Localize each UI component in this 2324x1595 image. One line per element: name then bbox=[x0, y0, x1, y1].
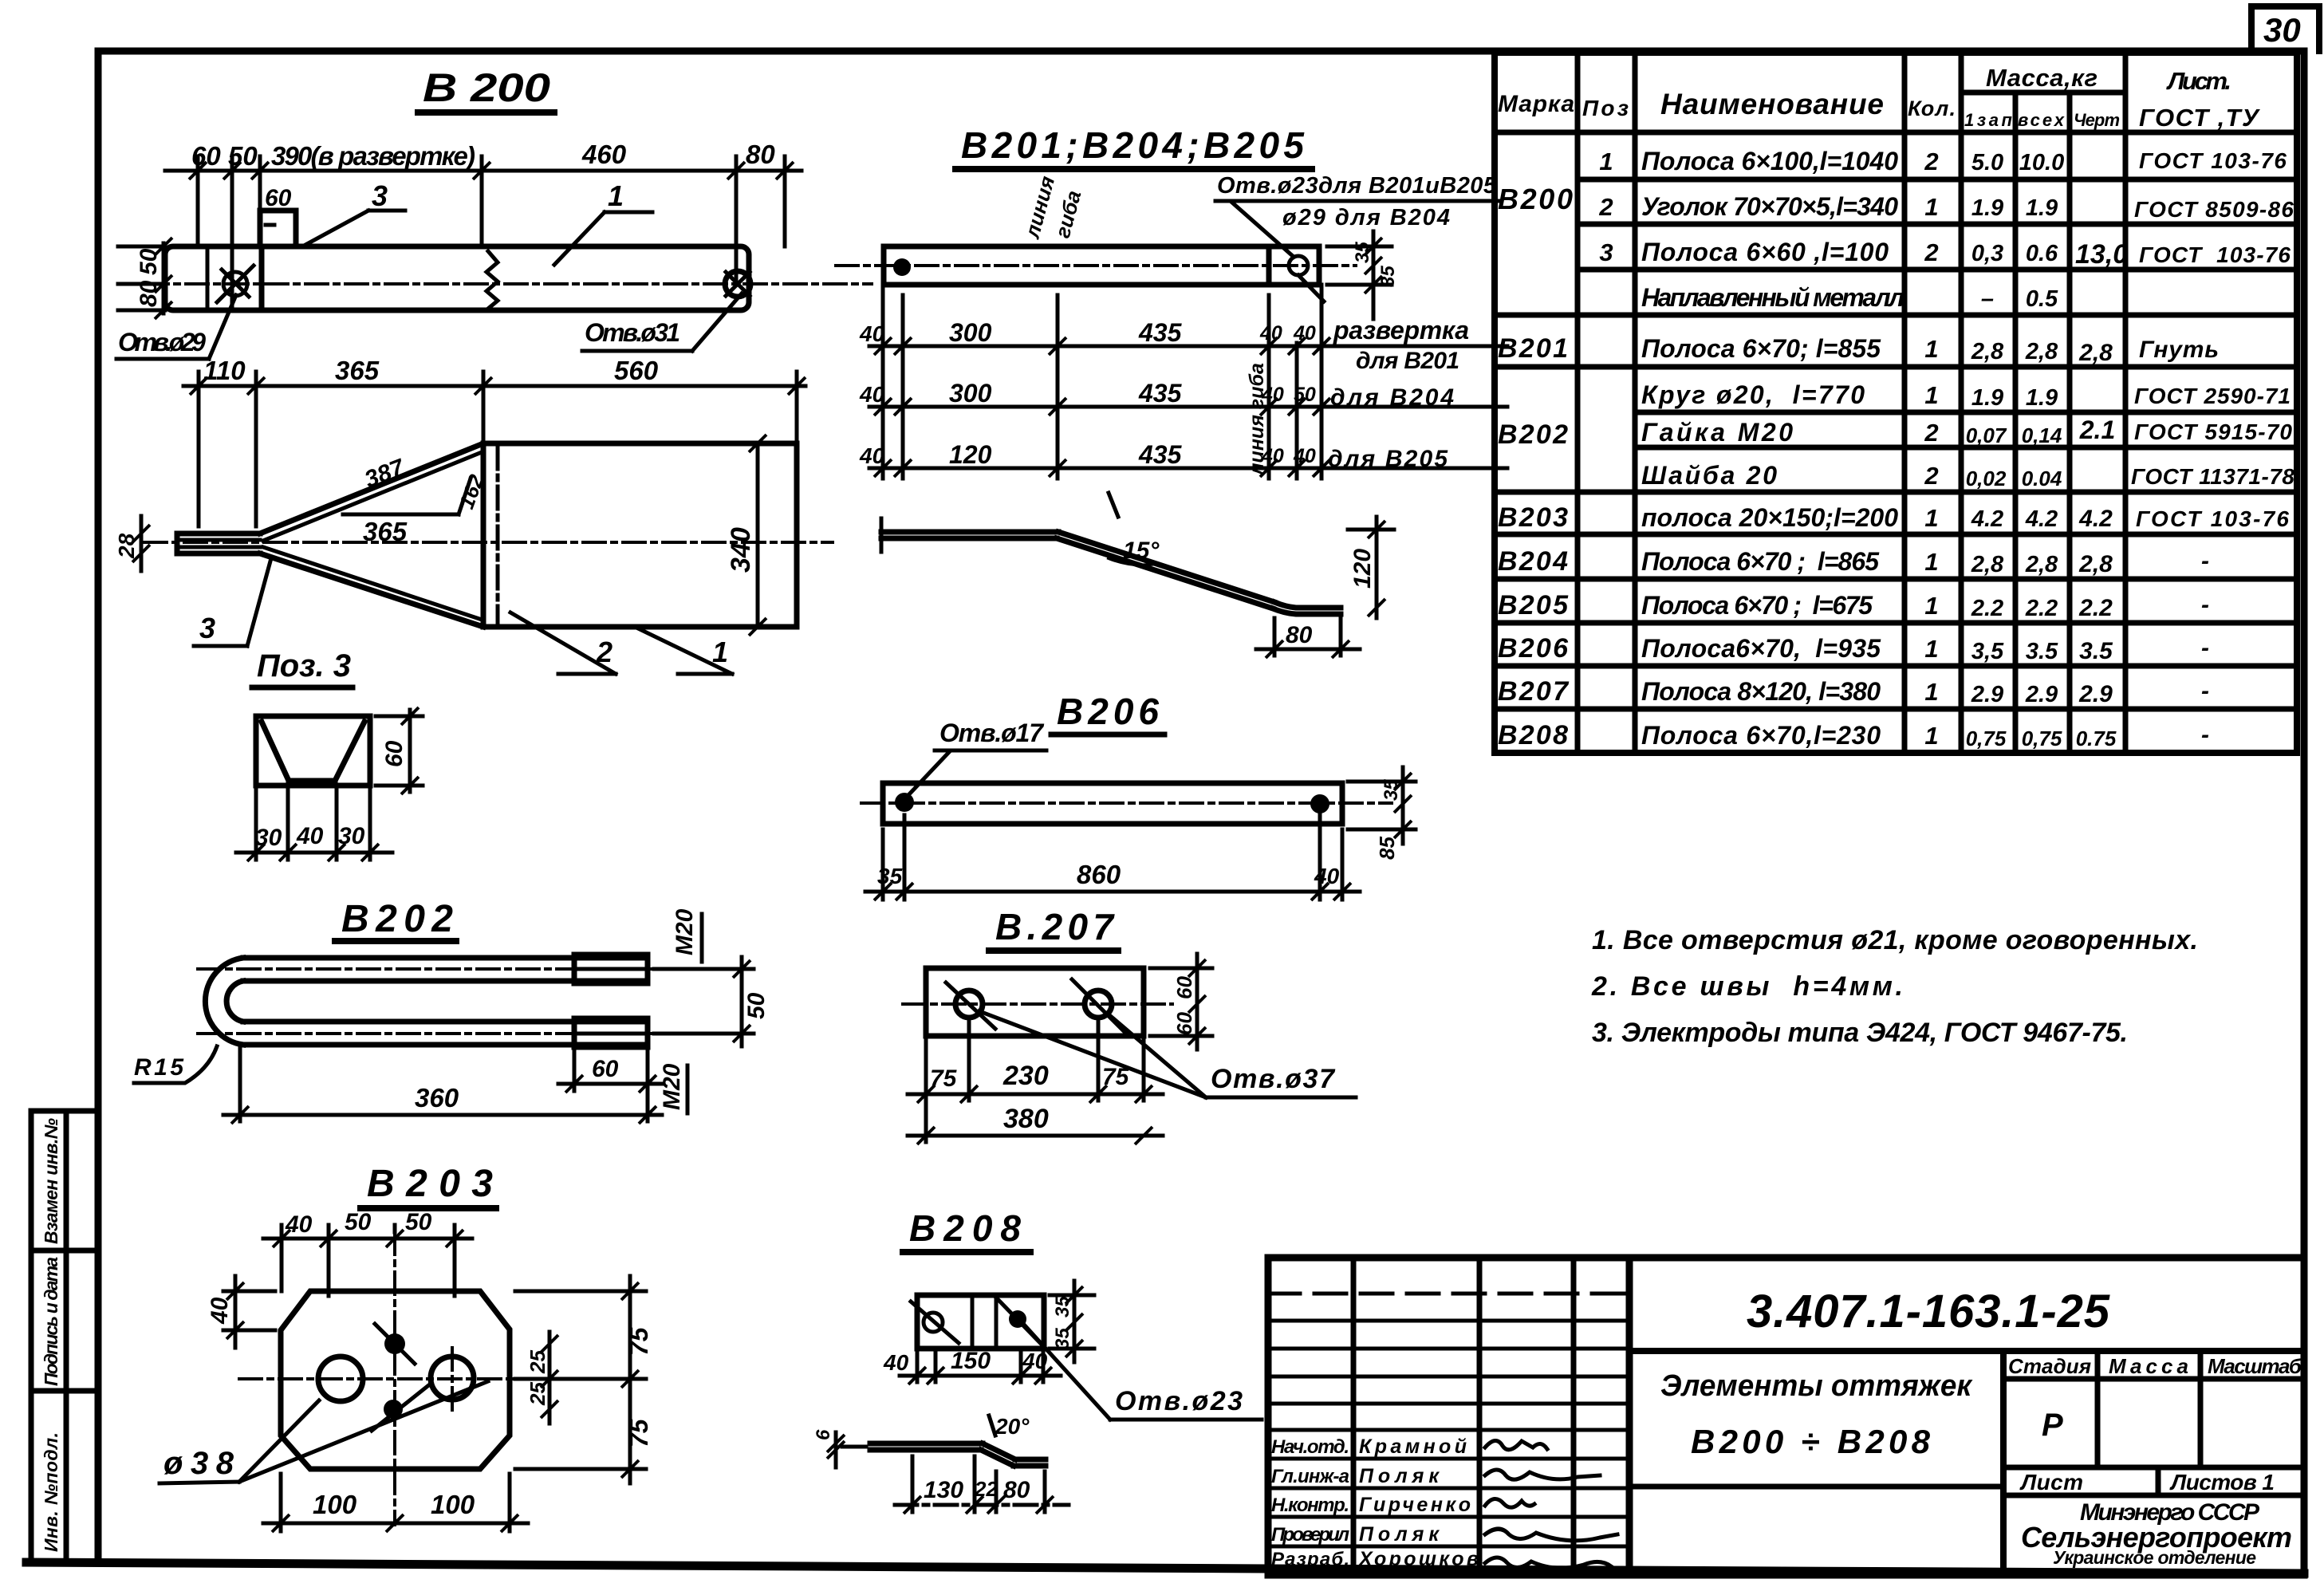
dim 120 right bbox=[1348, 517, 1394, 618]
svg-text:В203: В203 bbox=[1498, 502, 1568, 533]
funnel outline bbox=[144, 443, 833, 627]
label Отв.ø37 bbox=[979, 1011, 1356, 1097]
table body rows bbox=[1498, 147, 2294, 750]
svg-text:Инв. №подл.: Инв. №подл. bbox=[41, 1432, 61, 1552]
B207 dim 380 bbox=[908, 1104, 1163, 1144]
label Отв.ø31 bbox=[582, 293, 742, 351]
svg-text:В207: В207 bbox=[1498, 676, 1570, 707]
svg-text:Гайка М20: Гайка М20 bbox=[1641, 418, 1793, 447]
svg-text:4.2: 4.2 bbox=[1971, 506, 2003, 532]
svg-text:Полоса 6×70,l=230: Полоса 6×70,l=230 bbox=[1641, 721, 1881, 750]
svg-text:Полоса 6×70 ; l=675: Полоса 6×70 ; l=675 bbox=[1641, 591, 1873, 620]
svg-text:40: 40 bbox=[296, 823, 324, 849]
page border right bbox=[2301, 51, 2308, 1573]
svg-text:Проверил: Проверил bbox=[1271, 1524, 1349, 1546]
svg-text:ГОСТ 103-76: ГОСТ 103-76 bbox=[2139, 242, 2291, 267]
dim 360 bbox=[223, 1046, 662, 1124]
svg-text:40: 40 bbox=[1314, 864, 1340, 888]
svg-text:60: 60 bbox=[592, 1056, 619, 1082]
svg-text:40: 40 bbox=[1293, 445, 1316, 467]
svg-text:1зап: 1зап bbox=[1964, 110, 2013, 130]
B200 development view bbox=[183, 356, 806, 526]
centre line bbox=[146, 282, 872, 286]
svg-text:3.5: 3.5 bbox=[2026, 639, 2058, 664]
svg-text:340: 340 bbox=[726, 527, 756, 573]
svg-text:ГОСТ 11371-78: ГОСТ 11371-78 bbox=[2131, 464, 2294, 489]
svg-text:130: 130 bbox=[924, 1477, 963, 1503]
svg-text:60: 60 bbox=[1172, 976, 1196, 999]
svg-text:2,8: 2,8 bbox=[1971, 339, 2004, 364]
svg-text:10.0: 10.0 bbox=[2019, 150, 2064, 175]
B208 side dim 6 bbox=[813, 1429, 866, 1467]
B208 plate bbox=[911, 1295, 1046, 1349]
B206 strip bbox=[861, 783, 1392, 824]
svg-text:Взамен инв.№: Взамен инв.№ bbox=[41, 1118, 61, 1244]
left margin stamp column bbox=[31, 1111, 98, 1562]
svg-text:110: 110 bbox=[203, 356, 246, 385]
document number box bbox=[1629, 1258, 2304, 1575]
B200 strip top view bbox=[146, 185, 872, 310]
page border left bbox=[95, 51, 102, 1563]
svg-text:Р: Р bbox=[2042, 1408, 2063, 1443]
dim 28 left bbox=[114, 516, 150, 571]
svg-text:1: 1 bbox=[1924, 678, 1938, 706]
svg-text:0,14: 0,14 bbox=[2022, 423, 2062, 447]
svg-text:2,8: 2,8 bbox=[2078, 551, 2113, 577]
svg-text:Элементы оттяжек: Элементы оттяжек bbox=[1660, 1369, 1973, 1403]
svg-text:Отв.ø31: Отв.ø31 bbox=[585, 318, 680, 347]
svg-text:35: 35 bbox=[1381, 779, 1402, 801]
hole d38 right bbox=[431, 1357, 474, 1400]
B203 dims 100 100 bottom bbox=[263, 1474, 528, 1532]
svg-text:435: 435 bbox=[1138, 318, 1183, 347]
B208 side view bent strip 20deg bbox=[870, 1414, 1046, 1466]
svg-text:40: 40 bbox=[859, 382, 885, 407]
small holes d21 bbox=[384, 1333, 405, 1354]
hole d31 right bbox=[725, 271, 750, 297]
svg-text:380: 380 bbox=[1003, 1104, 1049, 1134]
leader 1 bbox=[554, 179, 652, 265]
svg-text:75: 75 bbox=[624, 1326, 653, 1356]
svg-text:-: - bbox=[2201, 722, 2209, 748]
svg-text:Гнуть: Гнуть bbox=[2139, 337, 2219, 363]
svg-text:Черт: Черт bbox=[2074, 110, 2120, 130]
svg-text:30: 30 bbox=[338, 823, 365, 849]
svg-text:80: 80 bbox=[136, 280, 162, 307]
svg-text:Полоса 8×120, l=380: Полоса 8×120, l=380 bbox=[1641, 677, 1881, 706]
signatures squiggles bbox=[1485, 1440, 1617, 1568]
svg-text:50: 50 bbox=[228, 141, 258, 171]
row lines bbox=[1578, 177, 2297, 183]
svg-text:2: 2 bbox=[1924, 238, 1938, 266]
svg-text:0,75: 0,75 bbox=[1966, 727, 2007, 750]
svg-text:Разраб.: Разраб. bbox=[1271, 1549, 1349, 1570]
svg-text:40: 40 bbox=[859, 321, 885, 346]
svg-text:М20: М20 bbox=[672, 908, 698, 955]
svg-text:ГОСТ 8509-86: ГОСТ 8509-86 bbox=[2134, 197, 2294, 222]
svg-text:В200: В200 bbox=[1498, 183, 1573, 215]
svg-text:80: 80 bbox=[746, 140, 775, 169]
label ø38 bbox=[160, 1381, 488, 1483]
svg-text:Уголок 70×70×5,l=340: Уголок 70×70×5,l=340 bbox=[1641, 192, 1898, 221]
svg-text:2,8: 2,8 bbox=[2078, 340, 2113, 366]
hole d29 left bbox=[223, 272, 247, 296]
svg-text:13,0: 13,0 bbox=[2075, 239, 2128, 270]
svg-text:1.9: 1.9 bbox=[2026, 385, 2058, 411]
svg-text:Отв.ø23: Отв.ø23 bbox=[1115, 1386, 1243, 1416]
empty revision rows bbox=[1268, 1292, 1629, 1296]
svg-text:-: - bbox=[2201, 592, 2209, 618]
notes bbox=[1591, 925, 2198, 1048]
svg-text:50: 50 bbox=[136, 248, 162, 275]
svg-text:ГОСТ 2590-71: ГОСТ 2590-71 bbox=[2134, 384, 2291, 408]
dim 60 bbox=[558, 1051, 662, 1121]
svg-text:30: 30 bbox=[2263, 11, 2301, 49]
svg-text:25: 25 bbox=[526, 1382, 549, 1406]
svg-text:2: 2 bbox=[1924, 148, 1938, 175]
svg-text:Кол.: Кол. bbox=[1908, 96, 1956, 120]
svg-text:40: 40 bbox=[1259, 322, 1282, 345]
page border bottom bbox=[26, 1562, 2304, 1573]
svg-text:40: 40 bbox=[1293, 322, 1316, 345]
svg-text:360: 360 bbox=[415, 1083, 459, 1113]
leader 3 bbox=[305, 179, 405, 245]
svg-text:1: 1 bbox=[1924, 381, 1938, 409]
svg-text:0,75: 0,75 bbox=[2022, 727, 2062, 750]
svg-text:40: 40 bbox=[883, 1350, 909, 1375]
B207 dims 75 230 75 bbox=[908, 1019, 1163, 1142]
hole d38 left bbox=[318, 1357, 363, 1401]
svg-text:Полоса 6×60 ,l=100: Полоса 6×60 ,l=100 bbox=[1641, 238, 1889, 266]
dim 80 bottom bbox=[1256, 618, 1360, 658]
svg-text:В202: В202 bbox=[1498, 419, 1568, 450]
svg-text:365: 365 bbox=[335, 356, 380, 385]
row line 1 bbox=[869, 345, 1507, 349]
svg-text:Украинское отделение: Украинское отделение bbox=[2053, 1547, 2256, 1568]
svg-text:3.5: 3.5 bbox=[2079, 638, 2113, 664]
svg-text:2.2: 2.2 bbox=[2078, 595, 2113, 621]
svg-text:1. Все отверстия ø21, кроме ог: 1. Все отверстия ø21, кроме оговоренных. bbox=[1592, 925, 2198, 955]
svg-text:460: 460 bbox=[581, 140, 627, 169]
leader 1 (funnel) bbox=[638, 628, 732, 674]
svg-text:Полоса6×70, l=935: Полоса6×70, l=935 bbox=[1641, 634, 1881, 663]
svg-text:М20: М20 bbox=[659, 1063, 685, 1110]
svg-text:Наплавленный металл: Наплавленный металл bbox=[1641, 283, 1904, 312]
B200 top dim line 60 50 390 460 80 bbox=[165, 140, 802, 284]
svg-text:2.9: 2.9 bbox=[2078, 681, 2113, 707]
svg-text:Отв.ø29: Отв.ø29 bbox=[118, 328, 206, 356]
svg-text:0,07: 0,07 bbox=[1966, 423, 2007, 447]
svg-text:для В205: для В205 bbox=[1328, 446, 1448, 472]
svg-text:50: 50 bbox=[345, 1209, 372, 1235]
svg-text:Полоса 6×70; l=855: Полоса 6×70; l=855 bbox=[1641, 334, 1881, 363]
dims 35 35 right of strip bbox=[1327, 231, 1399, 319]
dim 340 right bbox=[726, 435, 766, 636]
organisation bbox=[2021, 1499, 2292, 1568]
svg-text:435: 435 bbox=[1138, 379, 1183, 408]
svg-text:3: 3 bbox=[372, 179, 388, 212]
svg-text:ГОСТ 103-76: ГОСТ 103-76 bbox=[2139, 148, 2287, 173]
table header text bbox=[1498, 64, 2260, 132]
svg-text:25: 25 bbox=[526, 1350, 549, 1374]
svg-text:15°: 15° bbox=[1123, 538, 1160, 564]
svg-text:ГОСТ ,ТУ: ГОСТ ,ТУ bbox=[2139, 104, 2260, 132]
svg-text:линия гиба: линия гиба bbox=[1246, 363, 1268, 476]
B206 right dims 35 85 bbox=[1348, 767, 1416, 860]
svg-text:35: 35 bbox=[1352, 242, 1373, 263]
svg-text:0.04: 0.04 bbox=[2022, 467, 2062, 490]
svg-text:75: 75 bbox=[624, 1418, 653, 1447]
svg-text:120: 120 bbox=[949, 440, 992, 469]
poz3 plate section bbox=[256, 716, 370, 786]
svg-text:для В204: для В204 bbox=[1330, 384, 1454, 411]
svg-text:2: 2 bbox=[1598, 193, 1613, 221]
svg-text:Нач.отд.: Нач.отд. bbox=[1271, 1436, 1349, 1458]
svg-text:Подпись и дата: Подпись и дата bbox=[41, 1257, 61, 1386]
B201 strip top view bbox=[836, 246, 1356, 301]
svg-text:0.5: 0.5 bbox=[2026, 286, 2058, 312]
svg-text:60: 60 bbox=[381, 740, 408, 767]
svg-text:В206: В206 bbox=[1498, 633, 1569, 664]
svg-text:100: 100 bbox=[313, 1490, 357, 1519]
svg-text:Поз. 3: Поз. 3 bbox=[257, 648, 351, 683]
svg-text:1: 1 bbox=[1924, 193, 1938, 221]
dim 50 right bbox=[654, 957, 770, 1046]
weld seam bbox=[486, 251, 498, 309]
centre lines bbox=[393, 1232, 396, 1525]
svg-text:390(в развертке): 390(в развертке) bbox=[271, 141, 475, 171]
svg-text:Лист: Лист bbox=[2019, 1470, 2083, 1495]
svg-text:Хорошков: Хорошков bbox=[1357, 1548, 1479, 1570]
svg-text:В 200: В 200 bbox=[423, 65, 550, 110]
list row bbox=[2003, 1467, 2304, 1495]
svg-text:100: 100 bbox=[431, 1490, 475, 1519]
svg-text:Масса: Масса bbox=[2109, 1354, 2188, 1378]
poz3 dims 30 40 30 bbox=[236, 786, 392, 861]
svg-text:3,5: 3,5 bbox=[1971, 639, 2004, 664]
svg-text:22: 22 bbox=[974, 1477, 998, 1501]
B208 bottom dims 40 150 40 bbox=[883, 1348, 1061, 1384]
label Отв.ø29 bbox=[116, 295, 236, 359]
B207 right dims 60 60 bbox=[1150, 954, 1212, 1050]
svg-text:4.2: 4.2 bbox=[2025, 506, 2058, 532]
svg-text:Шайба 20: Шайба 20 bbox=[1641, 461, 1777, 490]
svg-text:–: – bbox=[1981, 286, 1994, 312]
svg-text:Масса,кг: Масса,кг bbox=[1986, 64, 2098, 92]
svg-text:40: 40 bbox=[1022, 1349, 1048, 1373]
svg-text:Лист.: Лист. bbox=[2166, 67, 2231, 95]
svg-text:3.407.1-163.1-25: 3.407.1-163.1-25 bbox=[1747, 1286, 2110, 1337]
row 3 values 40 120 435 40 40 для В205 bbox=[859, 440, 1448, 472]
row 1 values 40 300 435 40 40 развертка для В201 bbox=[859, 316, 1474, 374]
svg-text:2: 2 bbox=[1924, 462, 1938, 490]
development dim rows for B201 B204 B205 bbox=[869, 285, 1507, 478]
svg-text:для В201: для В201 bbox=[1356, 348, 1459, 374]
svg-text:2: 2 bbox=[1924, 419, 1938, 447]
bent strip side view 15deg bbox=[881, 493, 1341, 614]
svg-text:развертка: развертка bbox=[1333, 316, 1469, 345]
svg-text:В200 ÷ В208: В200 ÷ В208 bbox=[1691, 1423, 1931, 1460]
left height dims 50 80 bbox=[118, 238, 172, 319]
label Отв.ø23 bbox=[1025, 1325, 1262, 1420]
svg-text:ø38: ø38 bbox=[163, 1446, 234, 1481]
svg-text:1: 1 bbox=[1599, 148, 1613, 175]
svg-text:2.2: 2.2 bbox=[1971, 596, 2003, 621]
svg-text:3: 3 bbox=[1599, 238, 1613, 266]
svg-text:Крамной: Крамной bbox=[1359, 1435, 1467, 1458]
svg-text:80: 80 bbox=[1003, 1477, 1030, 1503]
svg-text:В.207: В.207 bbox=[995, 906, 1115, 947]
poz3 dim 60 bbox=[376, 707, 423, 794]
svg-text:Н.контр.: Н.контр. bbox=[1271, 1495, 1349, 1516]
svg-text:1.9: 1.9 bbox=[1971, 385, 2003, 411]
B208 right dims 35 35 bbox=[1050, 1281, 1094, 1362]
svg-text:60: 60 bbox=[1172, 1012, 1196, 1035]
svg-text:40: 40 bbox=[859, 443, 885, 468]
svg-text:1: 1 bbox=[608, 179, 624, 212]
threaded ends bbox=[574, 955, 648, 983]
svg-text:Отв.ø37: Отв.ø37 bbox=[1211, 1064, 1336, 1094]
leader 2 (funnel) bbox=[510, 612, 616, 674]
page border top bbox=[98, 48, 2304, 55]
svg-text:60: 60 bbox=[191, 141, 221, 171]
svg-text:1.9: 1.9 bbox=[1971, 195, 2003, 221]
svg-text:1: 1 bbox=[1924, 635, 1938, 663]
row 2 values 300 435 40 50 для В204 bbox=[859, 379, 1454, 411]
svg-text:40: 40 bbox=[207, 1297, 233, 1325]
svg-text:20°: 20° bbox=[995, 1414, 1030, 1439]
svg-text:2,8: 2,8 bbox=[2025, 552, 2058, 577]
signature table frame bbox=[1268, 1258, 1629, 1575]
label Отв.ø17 bbox=[908, 719, 1046, 796]
row line 2 bbox=[869, 405, 1507, 409]
header lines bbox=[1961, 90, 2125, 96]
svg-text:R15: R15 bbox=[134, 1054, 184, 1081]
svg-text:В205: В205 bbox=[1498, 590, 1569, 620]
svg-text:полоса 20×150;l=200: полоса 20×150;l=200 bbox=[1641, 503, 1898, 532]
svg-text:1: 1 bbox=[1924, 722, 1938, 750]
B203 dims 25 25 bbox=[526, 1332, 558, 1424]
svg-text:Полоса 6×100,l=1040: Полоса 6×100,l=1040 bbox=[1641, 147, 1898, 175]
column lines bbox=[1575, 53, 1581, 753]
svg-text:50: 50 bbox=[1294, 384, 1316, 406]
svg-text:1: 1 bbox=[1924, 548, 1938, 576]
svg-text:Отв.ø23для В201иВ205: Отв.ø23для В201иВ205 bbox=[1217, 173, 1497, 199]
svg-text:150: 150 bbox=[951, 1348, 991, 1374]
U-bolt body bbox=[198, 955, 684, 1047]
B203 dim 40 left bbox=[207, 1276, 275, 1348]
svg-text:560: 560 bbox=[614, 356, 659, 385]
svg-text:Листов 1: Листов 1 bbox=[2169, 1470, 2275, 1495]
B203 dims 75 75 right bbox=[515, 1276, 653, 1483]
svg-text:2,8: 2,8 bbox=[1971, 552, 2004, 577]
svg-text:85: 85 bbox=[1375, 837, 1399, 860]
dim line 110 365 560 bbox=[183, 384, 806, 388]
svg-text:В208: В208 bbox=[1498, 720, 1568, 750]
svg-text:Масштаб: Масштаб bbox=[2208, 1354, 2302, 1378]
B203 octagon plate bbox=[239, 1232, 582, 1525]
svg-text:0.75: 0.75 bbox=[2076, 727, 2117, 750]
svg-text:2.9: 2.9 bbox=[2025, 682, 2058, 707]
svg-text:3. Электроды типа Э424, ГОСТ 9: 3. Электроды типа Э424, ГОСТ 9467-75. bbox=[1592, 1018, 2128, 1048]
svg-text:35: 35 bbox=[1377, 266, 1399, 287]
svg-text:Наименование: Наименование bbox=[1660, 88, 1884, 120]
svg-text:Отв.ø17: Отв.ø17 bbox=[939, 719, 1045, 747]
svg-text:300: 300 bbox=[949, 318, 992, 347]
svg-text:Стадия: Стадия bbox=[2008, 1354, 2091, 1378]
svg-text:435: 435 bbox=[1138, 440, 1183, 469]
svg-text:-: - bbox=[2201, 548, 2209, 574]
svg-text:860: 860 bbox=[1077, 860, 1121, 889]
svg-text:50: 50 bbox=[405, 1209, 432, 1235]
svg-text:75: 75 bbox=[930, 1065, 958, 1092]
table frame bbox=[1495, 53, 2297, 753]
svg-text:0.6: 0.6 bbox=[2026, 241, 2058, 266]
B208 side dims 130 22 80 bbox=[895, 1456, 1069, 1514]
svg-text:-: - bbox=[2201, 678, 2209, 704]
svg-text:ø29 для В204: ø29 для В204 bbox=[1282, 205, 1450, 230]
svg-text:0,02: 0,02 bbox=[1966, 467, 2007, 490]
svg-text:1.9: 1.9 bbox=[2026, 195, 2058, 221]
signature rows text bbox=[1271, 1435, 1479, 1570]
svg-text:4.2: 4.2 bbox=[2078, 506, 2113, 532]
drawing name cell bbox=[1629, 1351, 2003, 1575]
svg-text:2.1: 2.1 bbox=[2079, 415, 2115, 444]
B207 plate bbox=[903, 968, 1172, 1036]
svg-text:50: 50 bbox=[743, 992, 770, 1019]
svg-text:В204: В204 bbox=[1498, 546, 1568, 577]
svg-text:2. Все швы h=4мм.: 2. Все швы h=4мм. bbox=[1591, 971, 1903, 1002]
svg-text:300: 300 bbox=[949, 379, 992, 408]
B206 bottom dims 35 860 40 bbox=[865, 815, 1360, 900]
row line 3 bbox=[869, 467, 1507, 471]
svg-text:3: 3 bbox=[199, 612, 215, 644]
svg-text:-: - bbox=[2201, 635, 2209, 661]
svg-text:В206: В206 bbox=[1057, 691, 1159, 732]
svg-text:Гл.инж-а: Гл.инж-а bbox=[1271, 1466, 1349, 1487]
svg-text:35: 35 bbox=[1052, 1296, 1073, 1317]
svg-text:1: 1 bbox=[1924, 335, 1938, 363]
svg-text:1: 1 bbox=[1924, 504, 1938, 532]
svg-text:40: 40 bbox=[285, 1211, 313, 1238]
svg-text:2,8: 2,8 bbox=[2025, 339, 2058, 364]
svg-text:28: 28 bbox=[114, 533, 139, 559]
leader 3 (funnel) bbox=[194, 558, 271, 646]
svg-text:35: 35 bbox=[1052, 1328, 1073, 1349]
svg-text:30: 30 bbox=[255, 825, 282, 851]
svg-text:365: 365 bbox=[363, 517, 408, 546]
svg-text:2.2: 2.2 bbox=[2025, 596, 2058, 621]
B203 top dims 40 50 50 bbox=[263, 1209, 472, 1296]
svg-text:В201: В201 bbox=[1498, 333, 1568, 364]
svg-text:35: 35 bbox=[877, 864, 903, 888]
svg-text:Полоса 6×70 ; l=865: Полоса 6×70 ; l=865 bbox=[1641, 547, 1880, 576]
svg-text:1: 1 bbox=[1924, 592, 1938, 620]
svg-text:Поз: Поз bbox=[1582, 96, 1629, 120]
svg-text:60: 60 bbox=[265, 185, 292, 211]
svg-text:6: 6 bbox=[813, 1429, 834, 1440]
gusset square poz.3 bbox=[260, 211, 296, 246]
svg-text:5.0: 5.0 bbox=[1971, 150, 2003, 175]
svg-text:230: 230 bbox=[1002, 1061, 1049, 1091]
svg-text:2.9: 2.9 bbox=[1971, 682, 2003, 707]
svg-text:0,3: 0,3 bbox=[1971, 241, 2003, 266]
svg-text:ГОСТ 5915-70: ГОСТ 5915-70 bbox=[2134, 419, 2292, 444]
label R15 bbox=[134, 1046, 217, 1083]
svg-text:ГОСТ 103-76: ГОСТ 103-76 bbox=[2136, 506, 2289, 531]
svg-text:80: 80 bbox=[1286, 622, 1313, 648]
svg-text:Марка: Марка bbox=[1498, 91, 1574, 117]
